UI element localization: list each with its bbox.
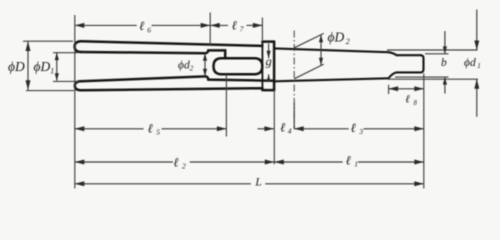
dim phid2 <box>204 53 206 76</box>
tang neck top curve <box>389 52 397 55</box>
collar step top <box>262 40 274 43</box>
dim phiD1 <box>56 53 58 81</box>
svg-text:g: g <box>266 54 272 68</box>
dim l8 <box>389 88 424 90</box>
dim b upper <box>444 31 446 54</box>
tang top flat <box>397 54 421 56</box>
collar left edge (taper end) <box>261 42 263 91</box>
sleeve inner taper top line <box>81 52 206 53</box>
slot cavity bottom step and floor line <box>206 76 275 80</box>
tang bottom flat <box>397 71 421 73</box>
dim l2 <box>75 161 173 163</box>
dim g upper <box>268 44 270 59</box>
collar step bottom <box>262 88 274 90</box>
sleeve inner taper bottom line <box>81 76 206 81</box>
sleeve bottom lip rounded left end <box>75 81 81 90</box>
dim l3 <box>294 128 349 130</box>
extension line x=226 slot <box>225 74 227 136</box>
phid1 extension lines <box>387 49 478 51</box>
extension line x=424 tang end <box>423 74 425 189</box>
sleeve outer top edge <box>81 41 262 46</box>
svg-text:ϕD: ϕD <box>8 59 25 74</box>
extension line x=262 top <box>261 18 263 42</box>
dim l7 <box>210 24 228 26</box>
svg-text:L: L <box>254 177 261 189</box>
dim phid1 lower <box>476 79 478 117</box>
extension line x=210 top <box>209 13 211 47</box>
dim l6 <box>75 24 137 26</box>
phiD1 extension lines <box>53 52 78 54</box>
dim l5 <box>75 128 144 130</box>
svg-text:b: b <box>441 57 447 69</box>
slot cavity top step <box>206 50 226 58</box>
extension line l8 left <box>388 85 390 94</box>
dim phiD <box>27 42 29 90</box>
tang slot capsule <box>214 58 263 74</box>
sleeve top lip rounded left end <box>75 41 81 52</box>
phiD2 oblique extension lines <box>294 33 324 47</box>
sleeve outer bottom edge <box>81 88 262 90</box>
dim l1 <box>274 161 342 163</box>
phiD extension lines <box>23 40 73 42</box>
tang neck bottom curve <box>389 72 397 78</box>
shank taper bottom edge <box>274 78 388 81</box>
dim l4 outside arrows <box>258 128 274 130</box>
shank taper top edge <box>274 48 388 52</box>
gauge plane dash-dot line <box>293 31 295 129</box>
b extension lines <box>425 53 449 55</box>
dim L <box>75 183 251 185</box>
tang rounded end <box>421 55 424 72</box>
left main extension line <box>74 15 76 189</box>
extension line x=274 sleeve end <box>273 90 275 165</box>
dim b lower <box>444 77 446 93</box>
dim phiD2 <box>320 35 322 66</box>
extension x=294 upper for l4/l3 <box>293 103 295 129</box>
sleeve right end face <box>273 42 276 91</box>
dim g lower <box>268 74 270 82</box>
dim phid1 upper <box>476 10 478 51</box>
